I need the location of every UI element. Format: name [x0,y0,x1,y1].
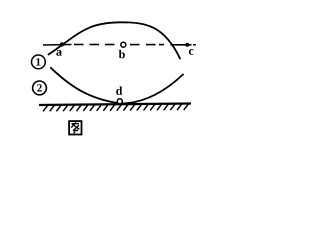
dash [90,44,100,46]
node b (open circle) [121,42,126,47]
caption glyph "tu" (figure) drawn as strokes [69,121,81,134]
dash [130,44,140,46]
ground line [39,104,191,106]
dashed horizontal line a-b-c [43,44,196,47]
node d (open circle on ground) [117,99,122,104]
label circled 2 [33,81,47,95]
dash [159,44,164,46]
ground hatching [43,104,188,111]
dash [146,44,156,46]
label a [56,50,61,56]
node c (filled dot) [185,43,189,47]
label d [116,86,122,94]
label b [119,50,125,58]
label c [189,49,194,55]
solid segment through c [171,44,192,46]
dash end [193,44,196,46]
trajectory curve 1 (upper arc through a, b level, c) [49,22,181,58]
dash [105,44,115,46]
dash [74,44,84,46]
node a (filled dot) [60,42,64,46]
wire solid segment through a [43,44,72,47]
label circled 1 [32,55,46,69]
trajectory curve 2 (lower curve touching ground at d) [51,68,183,104]
